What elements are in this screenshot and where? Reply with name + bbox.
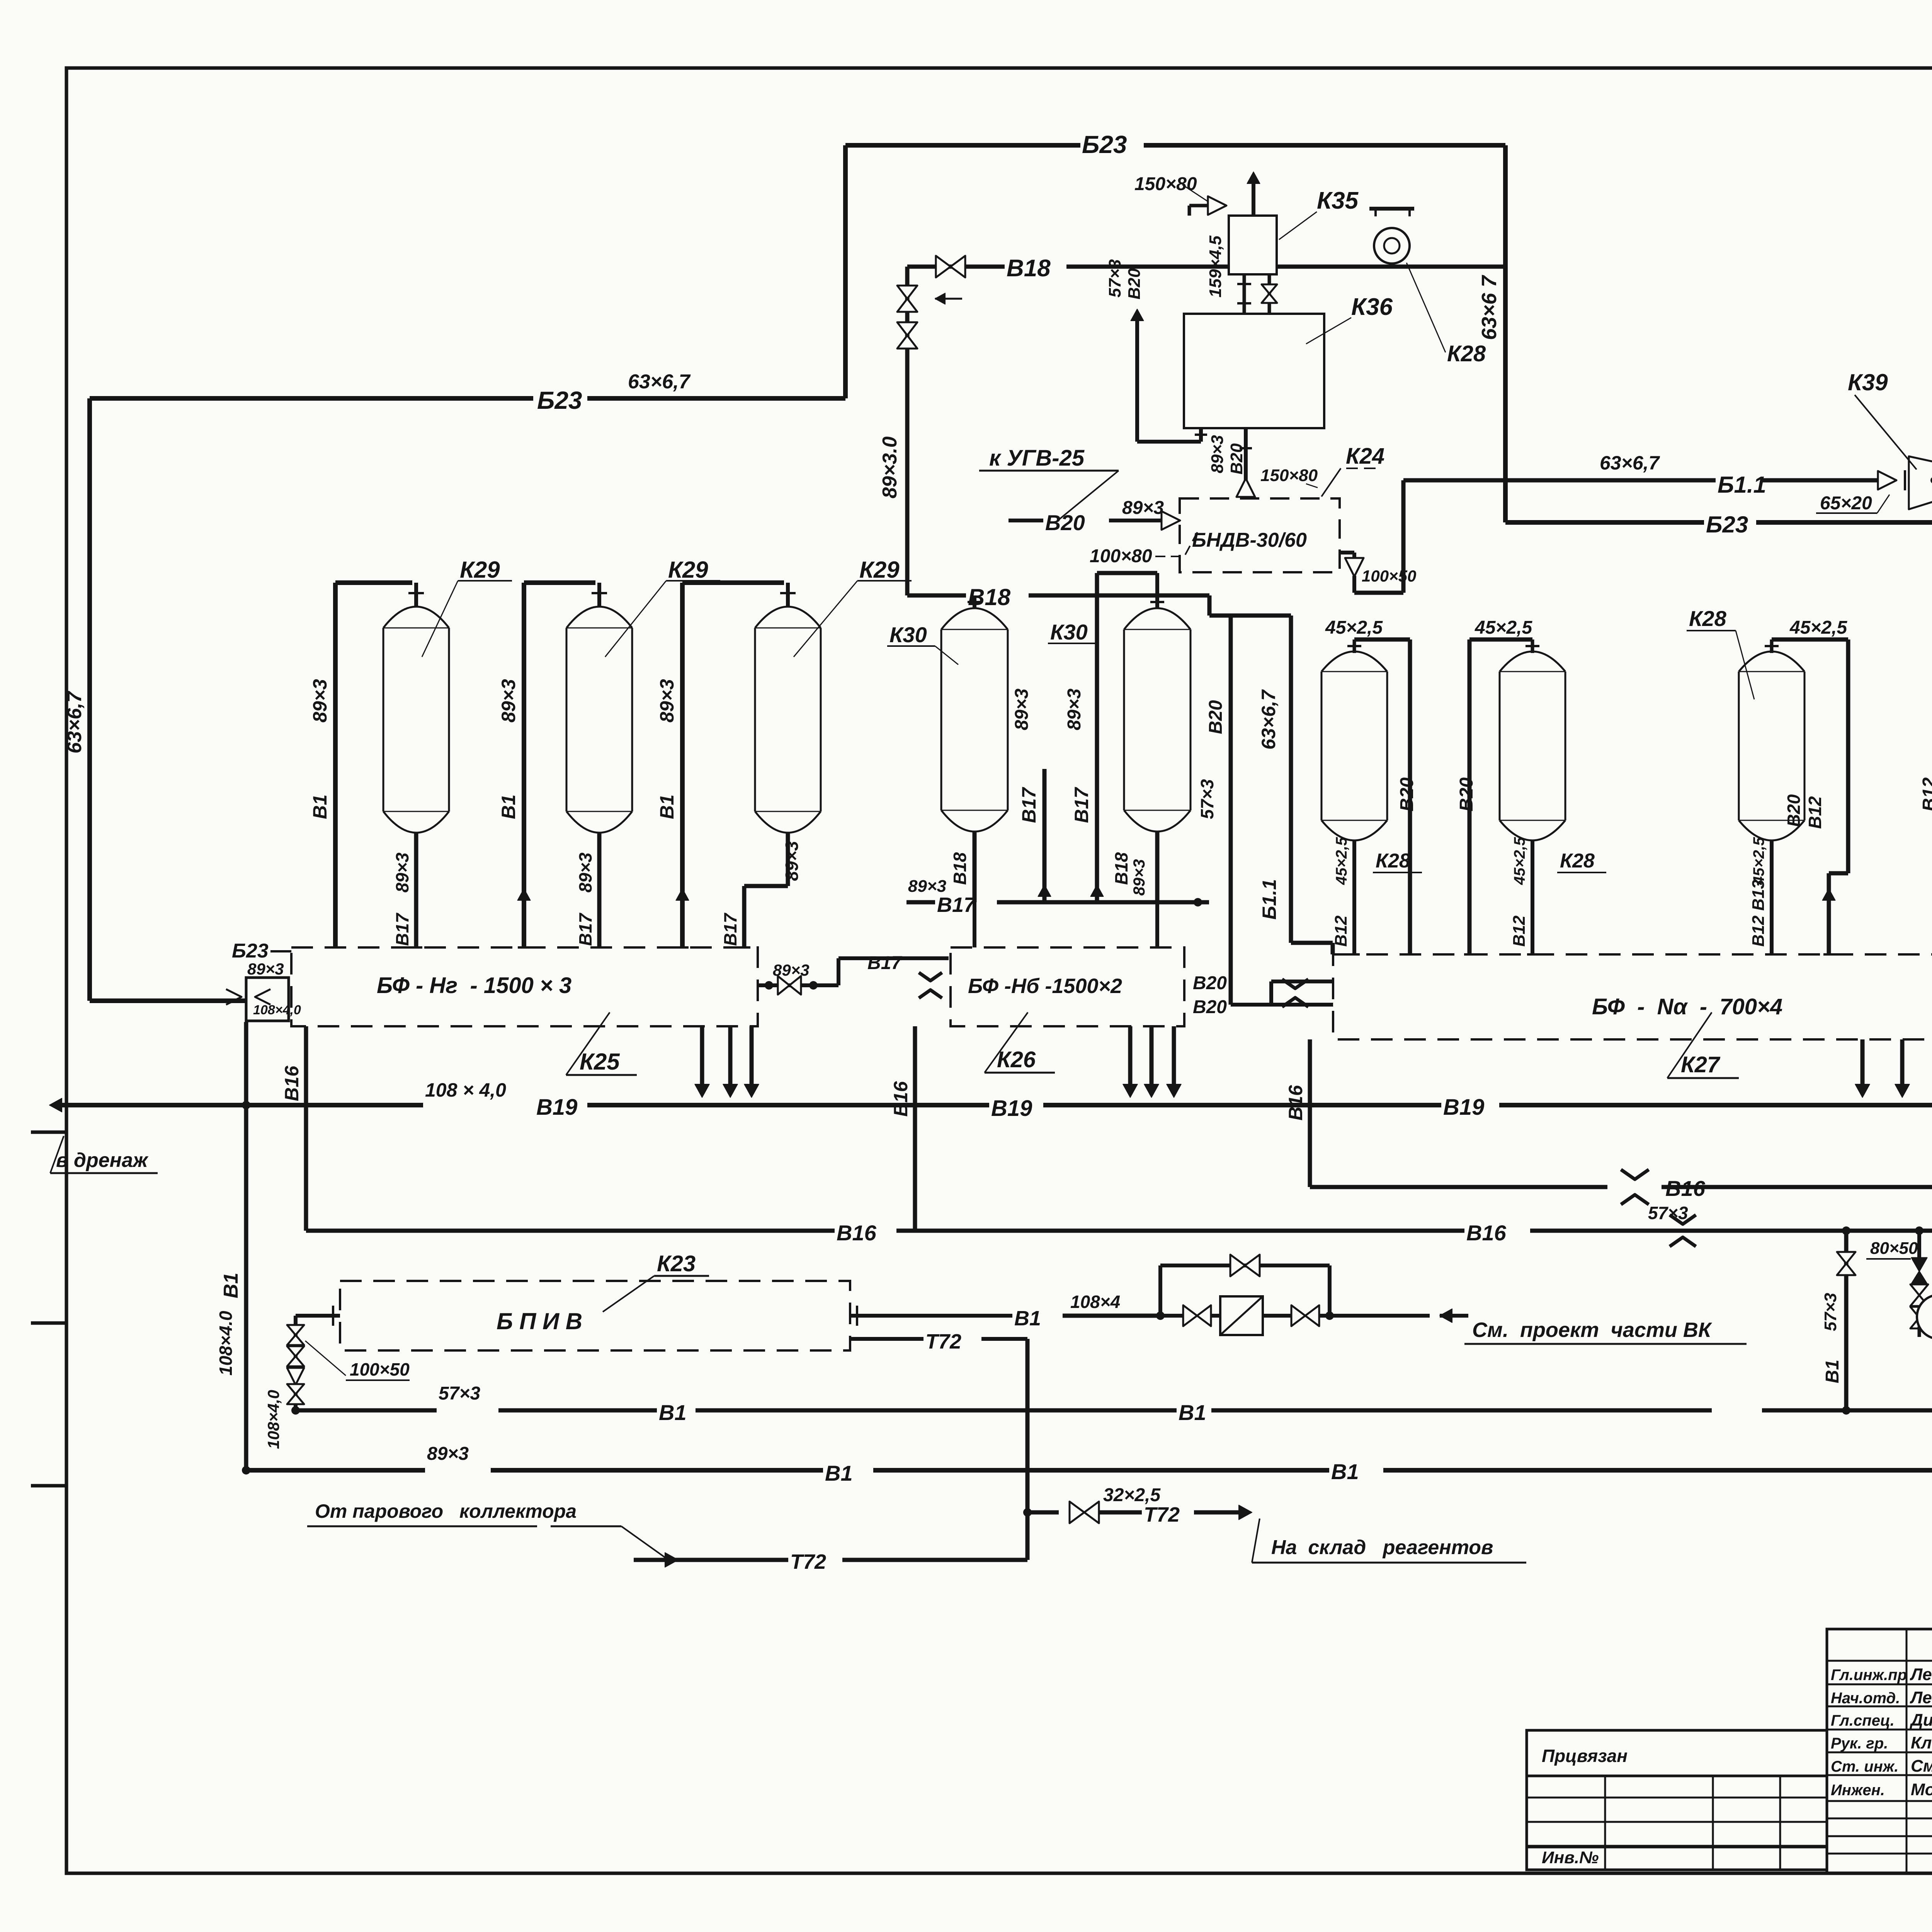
svg-text:В16: В16 bbox=[281, 1065, 303, 1101]
svg-text:В17: В17 bbox=[867, 953, 902, 973]
attachment table left bbox=[1527, 1730, 1827, 1776]
svg-text:БФ -Нб -1500×2: БФ -Нб -1500×2 bbox=[968, 975, 1122, 998]
svg-text:В1: В1 bbox=[1822, 1360, 1843, 1383]
svg-text:В20: В20 bbox=[1227, 443, 1246, 474]
svg-text:Б1.1: Б1.1 bbox=[1718, 472, 1766, 498]
svg-text:Ст. инж.: Ст. инж. bbox=[1831, 1758, 1898, 1775]
svg-text:К25: К25 bbox=[580, 1049, 620, 1075]
reducer 80×50 bbox=[1912, 1258, 1927, 1271]
wire Б23 into block bbox=[90, 998, 247, 1003]
svg-text:В19: В19 bbox=[991, 1096, 1032, 1121]
valve К35-К36 right bbox=[1268, 274, 1271, 314]
svg-text:150×80: 150×80 bbox=[1134, 174, 1197, 194]
wire Б23 top horizontal bbox=[845, 143, 1080, 148]
leader 150×80 bbox=[1182, 185, 1209, 202]
svg-text:108×4,0: 108×4,0 bbox=[253, 1003, 301, 1017]
wire К36 bottom right to БНДВ bbox=[1244, 428, 1248, 482]
svg-text:45×2,5: 45×2,5 bbox=[1750, 837, 1767, 885]
svg-text:В12: В12 bbox=[1805, 796, 1825, 829]
svg-text:В20: В20 bbox=[1125, 268, 1144, 299]
svg-text:К39: К39 bbox=[1848, 369, 1888, 395]
title block signature table bbox=[1827, 1629, 1932, 1874]
svg-text:159×4,5: 159×4,5 bbox=[1206, 235, 1225, 298]
vessel К30 #2 bbox=[1123, 629, 1125, 810]
wire Т72 low bbox=[634, 1558, 788, 1562]
svg-text:К28: К28 bbox=[1376, 850, 1410, 872]
tank К36 bbox=[1184, 314, 1324, 428]
svg-text:89×3: 89×3 bbox=[1130, 859, 1148, 896]
В1 См arrow bbox=[1440, 1309, 1452, 1322]
Т72 low arrow bbox=[665, 1553, 678, 1567]
svg-text:45×2,5: 45×2,5 bbox=[1325, 617, 1383, 638]
chevron in bbox=[226, 989, 241, 1005]
svg-text:89×3.0: 89×3.0 bbox=[879, 436, 901, 498]
valve В1 drop bbox=[1837, 1252, 1855, 1275]
svg-text:В17: В17 bbox=[1018, 787, 1040, 823]
fold mark left 2 bbox=[31, 1321, 66, 1325]
vent arrow left of К36 bbox=[1135, 317, 1139, 442]
svg-text:В17: В17 bbox=[720, 912, 740, 946]
wire В1 89×3 bbox=[246, 1468, 425, 1473]
wire В16 upper bbox=[1308, 1039, 1312, 1187]
svg-text:108×4: 108×4 bbox=[1070, 1292, 1120, 1312]
wire Т72 branch b bbox=[1099, 1510, 1142, 1515]
junction В16-К33 bbox=[1915, 1226, 1923, 1235]
vessel К29 #2 bbox=[566, 628, 568, 811]
svg-text:Б1.1: Б1.1 bbox=[1259, 879, 1280, 920]
svg-text:Гл.инж.пр: Гл.инж.пр bbox=[1831, 1667, 1907, 1684]
svg-text:Левитан: Левитан bbox=[1910, 1665, 1932, 1684]
flange stub К35-К36 left bbox=[1243, 274, 1246, 314]
svg-text:В18: В18 bbox=[950, 852, 970, 885]
wire БПИВ right Т72 bbox=[850, 1337, 923, 1341]
wire inlet К28 #2 bbox=[1531, 639, 1534, 653]
svg-text:63×6 7: 63×6 7 bbox=[1478, 274, 1501, 340]
svg-text:В12: В12 bbox=[1919, 777, 1932, 811]
tank К35 bbox=[1229, 216, 1277, 274]
svg-text:89×3: 89×3 bbox=[575, 852, 595, 893]
svg-text:В1: В1 bbox=[1014, 1307, 1041, 1330]
reducer 89×3 БНДВ bbox=[1162, 511, 1180, 530]
wire В18 upper bbox=[907, 265, 1005, 269]
wire БФ-Нг right out bbox=[758, 983, 838, 987]
svg-text:В20: В20 bbox=[1193, 997, 1227, 1017]
svg-text:63×6,7: 63×6,7 bbox=[1600, 452, 1660, 474]
svg-text:БФ - Nα - 700×4: БФ - Nα - 700×4 bbox=[1592, 994, 1782, 1019]
wire В16 vertical 2 bbox=[913, 1026, 917, 1231]
svg-text:В20: В20 bbox=[1397, 777, 1417, 811]
valve К33 drop 1 bbox=[1910, 1284, 1928, 1306]
wire К36 bottom left bbox=[1137, 440, 1201, 444]
svg-text:89×3: 89×3 bbox=[392, 852, 412, 893]
wire В20 stub to БНДВ bbox=[1009, 519, 1043, 522]
svg-text:В17: В17 bbox=[937, 893, 976, 917]
svg-text:в дренаж: в дренаж bbox=[56, 1149, 149, 1172]
svg-text:Рук. гр.: Рук. гр. bbox=[1831, 1735, 1888, 1752]
БФ-Нб bottom arrows bbox=[1128, 1026, 1133, 1086]
svg-text:В16: В16 bbox=[890, 1081, 912, 1117]
svg-text:89×3: 89×3 bbox=[1064, 689, 1085, 730]
ticks БФ-Нг top stubs bbox=[329, 946, 342, 949]
tank К26 БФ-Нб-1500×2 dashed bbox=[951, 947, 1184, 1026]
svg-text:К26: К26 bbox=[997, 1047, 1036, 1072]
svg-text:В20: В20 bbox=[1193, 973, 1227, 993]
svg-text:63×6,7: 63×6,7 bbox=[628, 371, 691, 393]
svg-text:См. проект части ВК: См. проект части ВК bbox=[1472, 1318, 1713, 1342]
wire drain К28 #3 bbox=[1770, 840, 1774, 954]
wire К30#1 drain bbox=[973, 832, 977, 902]
wire К30#1 inlet bbox=[973, 595, 976, 608]
wire БПИВ right В1 bbox=[850, 1314, 1012, 1318]
svg-text:45×2,5: 45×2,5 bbox=[1511, 837, 1528, 885]
ticks БФ-Nа top stubs bbox=[1349, 953, 1360, 956]
wire Б23 2nd horizontal bbox=[90, 396, 533, 401]
svg-text:В17: В17 bbox=[575, 912, 595, 946]
svg-text:В1: В1 bbox=[498, 794, 519, 819]
svg-text:89×3: 89×3 bbox=[782, 841, 802, 881]
wire drain К28 #1 bbox=[1352, 840, 1356, 954]
svg-text:БНДВ-30/60: БНДВ-30/60 bbox=[1192, 529, 1307, 551]
wire В1 riser К29 #2 bbox=[522, 583, 526, 947]
wire Б1.1 horizontal bbox=[1403, 478, 1716, 483]
valve 1 on В18 riser bbox=[897, 286, 917, 312]
svg-text:К27: К27 bbox=[1681, 1052, 1721, 1077]
svg-text:К28: К28 bbox=[1560, 850, 1595, 872]
tank К25 БФ-Нг-1500×3 dashed bbox=[291, 947, 758, 1026]
svg-text:63×6,7: 63×6,7 bbox=[63, 690, 86, 753]
vessel К29 #3 bbox=[754, 628, 756, 811]
svg-text:В1: В1 bbox=[659, 1400, 687, 1425]
svg-text:80×50: 80×50 bbox=[1870, 1239, 1918, 1258]
fold mark left 1 bbox=[31, 1131, 66, 1134]
svg-text:В1: В1 bbox=[656, 794, 678, 819]
wire drain К29 #1 bbox=[414, 833, 418, 947]
reducer 65×20 bbox=[1878, 471, 1896, 490]
svg-text:45×2,5: 45×2,5 bbox=[1475, 617, 1532, 638]
tank К24 БНДВ-30/60 dashed bbox=[1180, 498, 1340, 572]
svg-text:В1: В1 bbox=[309, 794, 331, 819]
svg-text:К28: К28 bbox=[1447, 341, 1486, 366]
wire drain К28 #2 bbox=[1531, 840, 1534, 954]
fan К28 bracket bbox=[1369, 207, 1414, 211]
vessel К29 #1 bbox=[383, 628, 384, 811]
svg-text:В19: В19 bbox=[1443, 1095, 1484, 1120]
svg-text:89×3: 89×3 bbox=[908, 877, 946, 896]
svg-text:БФ - Нг - 1500 × 3: БФ - Нг - 1500 × 3 bbox=[377, 973, 571, 998]
svg-text:Т72: Т72 bbox=[925, 1330, 961, 1353]
svg-text:45×2,5: 45×2,5 bbox=[1789, 617, 1847, 638]
svg-text:В1: В1 bbox=[1331, 1459, 1359, 1484]
svg-text:Прцвязан: Прцвязан bbox=[1542, 1746, 1628, 1766]
chevrons БФ-Нб left bbox=[919, 973, 942, 981]
svg-text:89×3: 89×3 bbox=[498, 679, 519, 723]
svg-text:89×3: 89×3 bbox=[309, 679, 331, 723]
svg-text:89×3: 89×3 bbox=[773, 961, 810, 979]
pump К39 bbox=[1909, 456, 1932, 509]
vessel К28 #2 bbox=[1499, 672, 1501, 820]
svg-text:89×3: 89×3 bbox=[1122, 498, 1164, 518]
wire В17 riser 1 bbox=[1043, 769, 1047, 902]
svg-text:89×3: 89×3 bbox=[427, 1444, 469, 1464]
svg-text:108×4,0: 108×4,0 bbox=[264, 1390, 282, 1449]
svg-text:100×80: 100×80 bbox=[1090, 546, 1152, 566]
svg-text:Инжен.: Инжен. bbox=[1831, 1782, 1885, 1799]
vessel К30 #1 bbox=[940, 629, 942, 810]
junction block Б23-БФ bbox=[246, 978, 289, 1021]
БФ-Nа bottom arrows bbox=[1861, 1039, 1865, 1086]
wire В1 riser К29 #1 bbox=[333, 583, 338, 947]
wire drain К29 #2 bbox=[597, 833, 602, 947]
svg-text:32×2,5: 32×2,5 bbox=[1103, 1485, 1161, 1505]
svg-text:В16: В16 bbox=[1285, 1085, 1306, 1121]
vent arrow above К35 bbox=[1252, 179, 1255, 216]
svg-text:Моисеева: Моисеева bbox=[1911, 1780, 1932, 1799]
svg-text:Дигин: Дигин bbox=[1909, 1711, 1932, 1730]
wire К30 drops to box bbox=[973, 902, 976, 947]
reducer 150×80 БНДВ bbox=[1236, 478, 1255, 497]
svg-text:В1: В1 bbox=[825, 1461, 853, 1485]
wire Б1.1 riser 63x6,7 bbox=[1289, 616, 1293, 943]
svg-text:В18: В18 bbox=[1007, 255, 1051, 282]
svg-text:В17: В17 bbox=[392, 912, 412, 946]
svg-text:К29: К29 bbox=[859, 557, 900, 583]
svg-text:К36: К36 bbox=[1351, 294, 1393, 320]
svg-text:В19: В19 bbox=[536, 1095, 577, 1120]
svg-text:К29: К29 bbox=[668, 557, 708, 583]
svg-text:Инв.№: Инв.№ bbox=[1542, 1848, 1599, 1867]
svg-text:В1: В1 bbox=[220, 1273, 242, 1298]
svg-text:В1: В1 bbox=[1179, 1400, 1206, 1425]
svg-text:Б23: Б23 bbox=[537, 386, 582, 414]
wire В20 stubs БФ-Nа bbox=[1271, 980, 1333, 983]
svg-text:В12: В12 bbox=[1332, 915, 1350, 947]
svg-text:Б23: Б23 bbox=[232, 940, 269, 962]
svg-text:45×2,5: 45×2,5 bbox=[1333, 837, 1350, 885]
svg-text:В16: В16 bbox=[1665, 1176, 1706, 1201]
wire В1 57×3 bbox=[296, 1408, 437, 1413]
wire К30#2 drain bbox=[1155, 832, 1160, 902]
wire В18 right bbox=[1277, 265, 1505, 269]
wire Б1.1 drop left bbox=[1401, 480, 1406, 593]
reducer 150×80 К35 bbox=[1208, 196, 1226, 215]
wire В1 drop from В16 bbox=[1844, 1231, 1849, 1410]
wire drain К29 #3 bbox=[786, 833, 790, 886]
wire В18 riser bbox=[905, 267, 910, 595]
filter bypass on В1 bbox=[1156, 1311, 1165, 1320]
svg-text:В20: В20 bbox=[1456, 777, 1477, 811]
svg-text:Гл.спец.: Гл.спец. bbox=[1831, 1712, 1895, 1729]
tank К27 БФ-Nа-700×4 dashed bbox=[1333, 954, 1932, 1039]
vessel К28 #1 bbox=[1321, 672, 1323, 820]
svg-text:В17: В17 bbox=[1071, 787, 1092, 823]
svg-text:Смирнова: Смирнова bbox=[1911, 1757, 1932, 1776]
БПИВ inlet valve stack bbox=[294, 1316, 298, 1410]
svg-text:Б23: Б23 bbox=[1082, 131, 1127, 158]
svg-text:89×3: 89×3 bbox=[1208, 435, 1227, 473]
svg-text:Клоков: Клоков bbox=[1911, 1733, 1932, 1752]
svg-text:108 × 4,0: 108 × 4,0 bbox=[425, 1079, 506, 1101]
svg-text:К23: К23 bbox=[657, 1251, 696, 1276]
svg-text:100×50: 100×50 bbox=[350, 1359, 410, 1379]
svg-text:89×3: 89×3 bbox=[247, 960, 284, 978]
svg-text:В20: В20 bbox=[1045, 510, 1085, 535]
wire Б23 right riser bbox=[1503, 145, 1508, 522]
В19 left arrow bbox=[49, 1098, 62, 1112]
svg-text:Т72: Т72 bbox=[1144, 1503, 1180, 1526]
wire inlet К28 #3 bbox=[1770, 639, 1774, 653]
svg-text:89×3: 89×3 bbox=[1012, 689, 1032, 730]
wire БНДВ right down bbox=[1340, 551, 1354, 554]
valve 2 on В18 riser bbox=[897, 322, 917, 349]
valve БФ bypass bbox=[778, 976, 801, 995]
svg-text:К30: К30 bbox=[1050, 620, 1088, 644]
svg-text:100×50: 100×50 bbox=[1362, 567, 1416, 585]
wire Т72 vertical bbox=[1026, 1339, 1030, 1560]
svg-text:От парового коллектора: От парового коллектора bbox=[315, 1500, 577, 1522]
wire В17 header bbox=[906, 900, 935, 905]
wire В19 main bbox=[58, 1103, 423, 1107]
svg-text:57×3: 57×3 bbox=[439, 1383, 480, 1404]
wire БФ-Нг bypass riser bbox=[837, 958, 840, 985]
valve Т72 bbox=[1070, 1502, 1099, 1523]
svg-text:К35: К35 bbox=[1317, 187, 1359, 214]
reducer 100×50 БНДВ bbox=[1345, 558, 1364, 577]
wire Т72 branch bbox=[1027, 1510, 1059, 1515]
fold mark left 3 bbox=[31, 1484, 66, 1488]
svg-text:Т72: Т72 bbox=[790, 1550, 826, 1573]
chevron X on В16 bbox=[1670, 1215, 1696, 1224]
svg-text:57×3: 57×3 bbox=[1821, 1293, 1840, 1331]
pump К33 circle bbox=[1917, 1295, 1932, 1339]
wire Б23 riser left bbox=[843, 145, 848, 398]
svg-text:57×3: 57×3 bbox=[1197, 779, 1217, 819]
fan К28 circle bbox=[1374, 228, 1410, 264]
svg-text:150×80: 150×80 bbox=[1260, 466, 1318, 485]
svg-text:Лепендин: Лепендин bbox=[1910, 1688, 1932, 1707]
svg-text:Нач.отд.: Нач.отд. bbox=[1831, 1690, 1900, 1707]
svg-text:63×6,7: 63×6,7 bbox=[1258, 689, 1279, 750]
svg-text:На склад реагентов: На склад реагентов bbox=[1271, 1536, 1493, 1559]
svg-text:Б23: Б23 bbox=[1706, 512, 1748, 537]
svg-text:В20: В20 bbox=[1784, 794, 1804, 827]
svg-text:57×3: 57×3 bbox=[1105, 259, 1124, 298]
valve К33 drop 2 bbox=[1910, 1307, 1928, 1328]
svg-text:В16: В16 bbox=[837, 1221, 877, 1245]
svg-text:К29: К29 bbox=[460, 557, 500, 583]
БФ-Нг bottom arrows bbox=[700, 1026, 704, 1086]
svg-text:57×3: 57×3 bbox=[1648, 1203, 1688, 1223]
svg-text:108×4.0: 108×4.0 bbox=[216, 1311, 236, 1376]
chevron В16 upper bbox=[1621, 1170, 1649, 1179]
wire Б23 mid horizontal bbox=[1505, 520, 1704, 525]
wire В18 corner down bbox=[1207, 595, 1212, 616]
svg-text:В12 В13: В12 В13 bbox=[1749, 879, 1768, 947]
svg-text:Б П И В: Б П И В bbox=[497, 1308, 582, 1334]
valve on В18 upper bbox=[936, 256, 965, 277]
wire К30#2 inlet П bbox=[1097, 571, 1157, 575]
wire В16 main bbox=[306, 1229, 835, 1233]
svg-text:В12: В12 bbox=[1510, 915, 1529, 947]
svg-text:к УГВ-25: к УГВ-25 bbox=[989, 446, 1085, 471]
svg-text:К30: К30 bbox=[889, 622, 927, 647]
wire В1 to См bbox=[1330, 1314, 1430, 1318]
svg-text:К24: К24 bbox=[1346, 444, 1384, 469]
svg-text:В16: В16 bbox=[1466, 1221, 1507, 1245]
vessel К28 #3 bbox=[1738, 672, 1740, 820]
wire В18 lower horizontal bbox=[907, 594, 966, 598]
tank К23 БПИВ dashed bbox=[340, 1281, 850, 1350]
svg-text:65×20: 65×20 bbox=[1820, 493, 1872, 514]
svg-text:89×3: 89×3 bbox=[656, 679, 678, 723]
svg-text:К28: К28 bbox=[1689, 606, 1727, 631]
wire В20 57×3 vertical bbox=[1229, 616, 1233, 1005]
wire Б23 left riser bbox=[87, 398, 92, 1001]
junction В16-В1 drop bbox=[1842, 1226, 1850, 1235]
wire В1 vertical left bbox=[244, 1022, 248, 1470]
wire В17 riser 2 bbox=[1095, 573, 1099, 902]
junction В1 drop bbox=[1842, 1406, 1850, 1415]
wire В16 vertical 1 bbox=[304, 1026, 308, 1231]
wire К33 drop bbox=[1917, 1231, 1921, 1258]
wire В1 riser К29 #3 bbox=[680, 583, 685, 947]
svg-text:В18: В18 bbox=[1111, 852, 1131, 885]
svg-text:В20: В20 bbox=[1206, 700, 1226, 734]
wire БПИВ left stub bbox=[296, 1314, 340, 1318]
wire inlet К28 #1 bbox=[1353, 639, 1356, 653]
